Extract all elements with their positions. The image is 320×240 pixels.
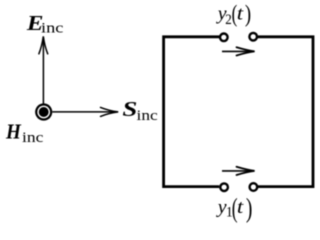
- S-field arrow (horizontal): [52, 107, 118, 116]
- terminal circle top-right: [249, 33, 257, 41]
- label S_inc: [122, 98, 157, 124]
- svg-text:inc: inc: [137, 108, 158, 124]
- svg-text:): ): [246, 194, 252, 224]
- label y1(t): [216, 193, 253, 224]
- terminal circle bottom-right: [250, 183, 258, 191]
- svg-text:inc: inc: [22, 129, 43, 145]
- current arrow bottom gap: [222, 167, 255, 175]
- label y2(t): [216, 0, 251, 27]
- svg-text:S: S: [122, 98, 137, 122]
- label H_inc: [5, 121, 43, 146]
- H-field out-of-page symbol (circle with dot): [35, 103, 52, 120]
- svg-text:H: H: [5, 121, 22, 144]
- current arrow top gap: [222, 47, 255, 55]
- label E_inc: [26, 11, 64, 36]
- E-field arrow (vertical): [39, 36, 48, 103]
- terminal circle bottom-left: [220, 183, 228, 191]
- wire loop outline: [164, 37, 313, 187]
- svg-text:2: 2: [225, 11, 232, 27]
- svg-text:): ): [245, 0, 251, 27]
- terminal circle top-left: [220, 34, 228, 42]
- svg-text:inc: inc: [41, 19, 63, 36]
